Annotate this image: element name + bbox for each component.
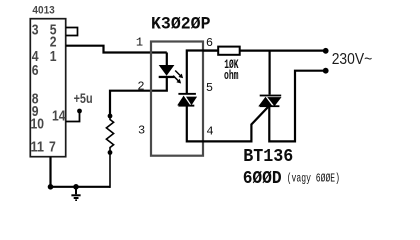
coupling arrow 1 — [175, 71, 183, 79]
opto triac down triangle — [186, 97, 197, 106]
ground symbol — [71, 187, 80, 201]
svg-text:5: 5 — [206, 81, 213, 95]
svg-text:3: 3 — [138, 124, 145, 138]
svg-text:+5u: +5u — [74, 91, 93, 106]
wire opto pin6 lead to R1 — [203, 49, 218, 51]
opto triac top bar — [178, 93, 196, 95]
svg-text:10: 10 — [31, 117, 45, 133]
svg-text:6: 6 — [206, 36, 213, 50]
+5u supply wire from U1 pin 14 — [66, 111, 80, 122]
resistor R2 zigzag — [106, 116, 113, 153]
svg-text:230V~: 230V~ — [332, 51, 373, 68]
wire R1 to terminal 1 — [240, 49, 326, 51]
wire opto pin2 to resistor R2 — [110, 78, 167, 117]
branch wire to triac Q1 MT2 — [269, 51, 271, 95]
svg-text:11: 11 — [31, 140, 45, 156]
ground bus wire — [51, 186, 111, 188]
svg-text:3: 3 — [32, 23, 39, 39]
junction dot at U1 pin7 — [48, 184, 54, 190]
svg-text:1: 1 — [50, 49, 57, 65]
svg-text:ohm: ohm — [224, 69, 239, 83]
IC U1 4013 body — [30, 19, 65, 157]
wire U1 pin7 to ground bus — [49, 157, 51, 187]
LED anode drop wire inside opto — [166, 53, 168, 67]
triac Q1 down triangle — [267, 97, 281, 106]
svg-text:7: 7 — [49, 140, 56, 156]
opto triac bottom bar — [178, 105, 194, 107]
LED D1 cathode bar — [159, 76, 175, 78]
wire U1 pin2 to opto pin1 — [66, 46, 167, 53]
resistor R2 top junction dot — [108, 114, 113, 119]
junction dot at ground — [73, 184, 79, 190]
wire opto pin4 to triac gate — [187, 106, 268, 142]
wire R2 to ground bus — [109, 153, 111, 188]
resistor R1 box — [218, 47, 240, 55]
triac Q1 bottom bar — [260, 105, 280, 107]
triac Q1 top bar — [260, 95, 282, 97]
opto triac feed wire to pin 6 — [187, 51, 217, 94]
triac Q1 up triangle — [258, 97, 272, 107]
stub on U1 pin 5 — [66, 28, 78, 36]
opto triac up triangle — [177, 96, 190, 106]
terminal dot 1 — [323, 48, 329, 54]
svg-text:K3Ø2ØP: K3Ø2ØP — [151, 15, 211, 35]
svg-text:BT136: BT136 — [243, 147, 293, 167]
svg-text:14: 14 — [52, 109, 66, 125]
resistor R2 bottom junction dot — [108, 150, 113, 155]
+5u terminal dot — [77, 109, 82, 114]
svg-text:4: 4 — [206, 125, 213, 139]
svg-text:(vagy 6ØØE): (vagy 6ØØE) — [287, 172, 340, 186]
svg-text:2: 2 — [137, 79, 144, 93]
optocoupler U2 box — [151, 42, 203, 156]
coupling arrow 2 — [173, 76, 181, 84]
svg-text:6ØØD: 6ØØD — [243, 169, 282, 189]
svg-text:1: 1 — [136, 36, 143, 50]
LED D1 triangle — [159, 65, 175, 76]
svg-text:4013: 4013 — [32, 5, 54, 17]
wire terminal 2 to triac MT1 — [269, 71, 325, 142]
svg-text:6: 6 — [32, 63, 39, 79]
terminal dot 2 — [323, 68, 329, 74]
